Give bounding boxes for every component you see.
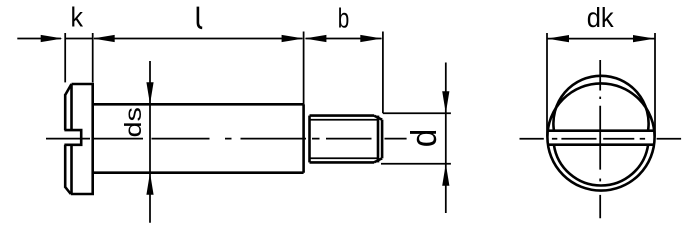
extension line d bottom xyxy=(381,163,451,165)
thread chamfer bottom diagonal xyxy=(374,158,382,162)
arrow d top xyxy=(442,91,449,113)
thread minor line bottom xyxy=(310,157,379,159)
svg-text:d: d xyxy=(403,129,444,148)
dimension line k leader xyxy=(17,38,61,40)
thread start face xyxy=(308,116,311,163)
extension line dk left xyxy=(546,33,548,137)
head top chamfer xyxy=(65,84,71,95)
shank bottom edge xyxy=(93,171,304,174)
thread end face xyxy=(381,120,384,159)
svg-text:b: b xyxy=(338,3,350,34)
extension line dk right xyxy=(654,33,656,137)
thread minor line top xyxy=(310,119,379,121)
front view inner circle bottom arc xyxy=(554,145,648,186)
head outline xyxy=(71,84,93,194)
arrow d bottom xyxy=(442,164,449,186)
thread chamfer circle line xyxy=(377,116,380,163)
arrow l right xyxy=(282,35,304,42)
front view horizontal centerline xyxy=(520,138,682,140)
dimension line dk xyxy=(547,38,655,40)
slot notch xyxy=(64,130,81,145)
front view slot top line xyxy=(548,129,655,132)
extension line d top xyxy=(383,112,451,114)
svg-text:ds: ds xyxy=(120,107,146,138)
arrow l left xyxy=(93,35,115,42)
arrow ds top xyxy=(146,82,153,104)
dimension line b xyxy=(306,38,382,40)
head left face upper xyxy=(64,94,67,130)
shoulder end face xyxy=(302,104,305,172)
front view slot bottom line xyxy=(548,143,655,146)
thread top edge xyxy=(310,114,375,117)
front view outer circle xyxy=(547,83,654,190)
dimension line ds vertical xyxy=(149,61,151,223)
arrow dk right xyxy=(633,35,655,42)
front view inner circle top arc xyxy=(553,76,648,131)
dimension line d vertical xyxy=(445,63,447,214)
extension line l right xyxy=(303,32,305,105)
head left face lower xyxy=(64,145,67,188)
arrow ds bottom xyxy=(146,173,153,195)
dimension line k xyxy=(65,38,93,40)
thread bottom edge xyxy=(310,161,375,164)
extension line k right xyxy=(92,33,94,82)
centerline side view xyxy=(46,138,407,140)
head chamfer inner line upper xyxy=(70,84,73,130)
arrow b left xyxy=(304,35,326,42)
shank top edge xyxy=(93,103,304,106)
head bottom chamfer xyxy=(65,187,71,194)
head chamfer inner line lower xyxy=(70,145,73,194)
arrow b right xyxy=(360,35,382,42)
svg-text:dk: dk xyxy=(587,2,615,33)
svg-text:k: k xyxy=(71,2,84,33)
dimension line l xyxy=(94,38,302,40)
label l (drawn with hook tail) xyxy=(198,7,202,28)
thread chamfer top diagonal xyxy=(374,116,382,120)
extension line b right xyxy=(382,32,384,114)
extension line k left xyxy=(64,33,66,82)
front view vertical centerline xyxy=(599,60,601,218)
arrow dk left xyxy=(547,35,569,42)
arrow k outside left xyxy=(41,35,63,42)
